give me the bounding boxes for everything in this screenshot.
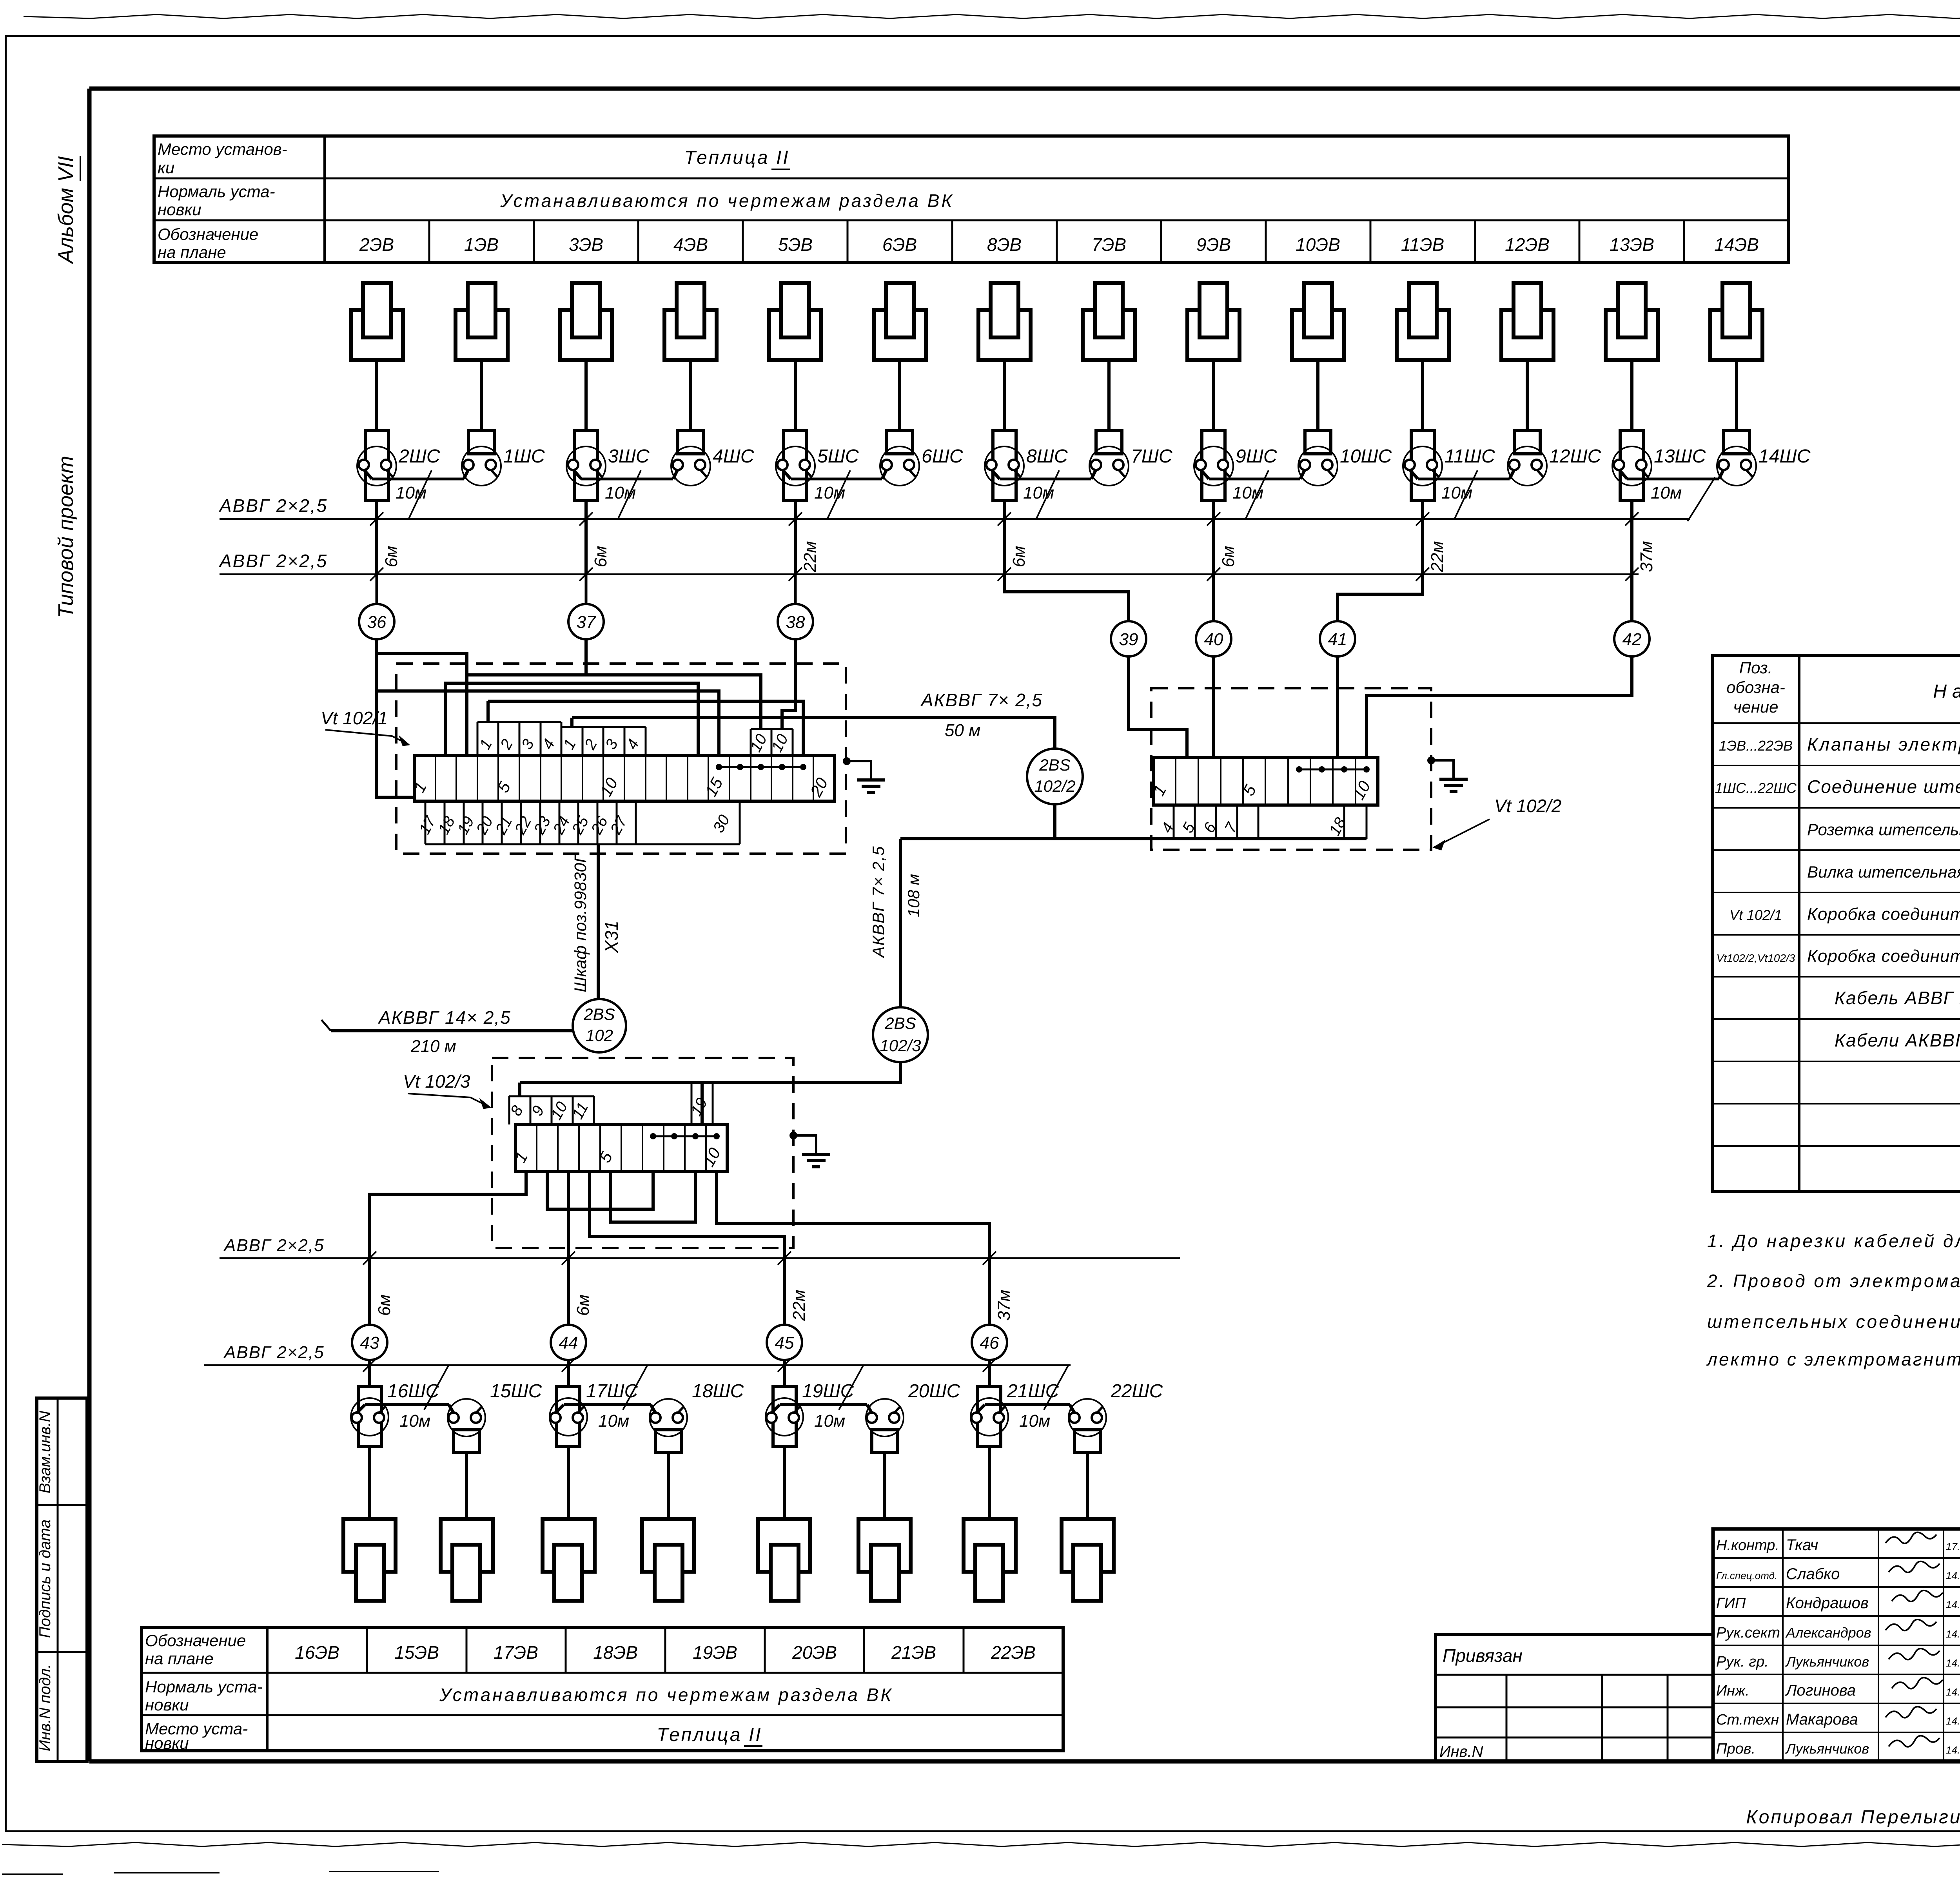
svg-text:10м: 10м — [1232, 483, 1263, 502]
plug connector 9ШС (socket with cable entry) — [1194, 446, 1233, 486]
svg-text:Нормаль уста-: Нормаль уста- — [158, 182, 275, 201]
wire drop to node 41 — [1338, 574, 1423, 621]
bottom table (Обозначение на плане / Нормаль установки / Место установки) — [142, 1627, 1063, 1751]
electromagnetic valve 2ЭВ — [351, 310, 403, 360]
svg-text:102/3: 102/3 — [880, 1036, 921, 1055]
node 38 — [794, 574, 797, 604]
branch drop wire (6м) from connector 2ШС to junction box — [375, 501, 378, 574]
svg-text:ГИП: ГИП — [1716, 1595, 1746, 1612]
svg-text:16ЭВ: 16ЭВ — [295, 1642, 339, 1663]
node 37 — [585, 574, 588, 604]
node 43 — [352, 1325, 387, 1360]
leader slash — [1688, 477, 1715, 521]
svg-text:43: 43 — [360, 1333, 379, 1353]
svg-text:22м: 22м — [789, 1289, 809, 1321]
wire 15ШС down to valve 15ЭВ — [465, 1453, 468, 1519]
svg-text:39: 39 — [1119, 630, 1138, 649]
wire from valve 12ЭВ down to connector — [1526, 360, 1529, 430]
svg-text:6м: 6м — [1219, 546, 1238, 568]
svg-text:новки: новки — [158, 200, 201, 219]
wire from valve 11ЭВ down to connector — [1421, 360, 1424, 430]
wire Vt102/3 terminal 3 to node 44 — [567, 1172, 570, 1325]
svg-text:Обозначение: Обозначение — [145, 1631, 246, 1650]
wire from valve 6ЭВ down to connector — [898, 360, 901, 430]
wire from valve 10ЭВ down to connector — [1316, 360, 1319, 430]
node 42 — [1614, 621, 1650, 657]
svg-text:1ЭВ: 1ЭВ — [464, 234, 499, 255]
svg-text:19ШС: 19ШС — [802, 1381, 854, 1402]
branch drop wire (6м) from connector 8ШС to junction box — [1003, 501, 1006, 574]
cable 10 m between 11ШС and 12ШС — [1418, 478, 1510, 481]
svg-text:Наименование: Наименование — [1933, 681, 1960, 702]
electromagnetic valve 14ЭВ — [1710, 310, 1762, 360]
plug connector 14ШС — [1717, 446, 1756, 486]
node 36 — [376, 574, 378, 604]
core stubs 1,2,3,4 (group B) above terminals 8-11 — [561, 727, 563, 755]
wire from valve 3ЭВ down to connector — [584, 360, 588, 430]
cable designation circle 2BS 102 — [573, 999, 626, 1052]
svg-text:АВВГ 2×2,5: АВВГ 2×2,5 — [223, 1343, 325, 1362]
svg-text:Ткач: Ткач — [1786, 1536, 1818, 1554]
main drawing frame — [89, 87, 1960, 91]
svg-text:АВВГ 2×2,5: АВВГ 2×2,5 — [218, 495, 328, 516]
cable 10 m between 8ШС and 7ШС — [1000, 478, 1091, 481]
svg-text:Кабели АКВВГ ГОСТ 1508-78: Кабели АКВВГ ГОСТ 1508-78 — [1835, 1030, 1960, 1050]
branch drop wire (6м) from connector 9ШС to junction box — [1212, 501, 1215, 574]
svg-text:АВВГ 2×2,5: АВВГ 2×2,5 — [218, 551, 328, 571]
svg-text:на плане: на плане — [158, 243, 226, 261]
svg-text:11ЭВ: 11ЭВ — [1401, 234, 1444, 255]
wire nest: node37 tee line to stub 10 over terminal 17 — [467, 675, 761, 729]
junction box Vt 102/1 (dashed outline) — [396, 664, 846, 854]
svg-text:Н.контр.: Н.контр. — [1716, 1537, 1779, 1554]
core stubs 8,9,10,11 above terminals of Vt102/3 — [508, 1096, 510, 1124]
svg-text:102/2: 102/2 — [1034, 777, 1075, 795]
svg-text:чение: чение — [1733, 698, 1779, 716]
core stub 19 above terminal 9 of Vt102/3 — [691, 1083, 693, 1124]
svg-text:Гл.спец.отд.: Гл.спец.отд. — [1716, 1570, 1777, 1581]
svg-text:13ШС: 13ШС — [1654, 446, 1706, 467]
svg-text:Альбом VII: Альбом VII — [54, 156, 78, 264]
electromagnetic valve 21ЭВ — [964, 1519, 1016, 1572]
svg-text:Vt 102/1: Vt 102/1 — [321, 708, 388, 728]
svg-text:10м: 10м — [399, 1411, 430, 1431]
svg-text:12ШС: 12ШС — [1549, 446, 1601, 467]
sheet scan edge (top wavy line) — [24, 15, 1960, 18]
ground symbol of Vt 102/1 — [843, 757, 851, 765]
wire 17ШС down to valve 17ЭВ — [567, 1447, 570, 1519]
ground symbol of Vt 102/2 — [1427, 756, 1435, 764]
svg-text:6м: 6м — [1009, 546, 1029, 568]
svg-text:5ШС: 5ШС — [817, 446, 859, 467]
svg-text:15ШС: 15ШС — [490, 1381, 542, 1402]
svg-text:22ЭВ: 22ЭВ — [991, 1642, 1036, 1663]
cable 10 m between 19ШС and 20ШС — [780, 1403, 867, 1406]
electromagnetic valve 4ЭВ — [664, 310, 717, 360]
cable designation circle 2BS 102/3 — [873, 1007, 928, 1062]
jumper link terminals 7-10 of Vt102/3 — [653, 1135, 717, 1137]
leader slash — [424, 1366, 448, 1410]
svg-text:новки: новки — [145, 1696, 189, 1714]
wire from valve 1ЭВ down to connector — [480, 360, 483, 430]
svg-text:Инв.N: Инв.N — [1439, 1743, 1483, 1760]
svg-text:8ШС: 8ШС — [1026, 446, 1068, 467]
svg-text:2BS: 2BS — [884, 1014, 916, 1032]
svg-text:10м: 10м — [1441, 483, 1472, 502]
svg-text:Vt 102/3: Vt 102/3 — [403, 1071, 470, 1092]
svg-text:3ЭВ: 3ЭВ — [569, 234, 603, 255]
svg-text:14.01.86: 14.01.86 — [1946, 1628, 1960, 1640]
svg-text:Клапаны электромагнитные: Клапаны электромагнитные — [1807, 734, 1960, 754]
svg-text:обозна-: обозна- — [1726, 678, 1785, 696]
cable 10 m between 5ШС and 6ШС — [791, 478, 882, 481]
wire 16ШС down to valve 16ЭВ — [368, 1447, 371, 1519]
svg-text:11ШС: 11ШС — [1445, 446, 1495, 467]
svg-text:21ШС: 21ШС — [1007, 1381, 1059, 1402]
wire from valve 14ЭВ down to connector — [1735, 360, 1738, 430]
electromagnetic valve 20ЭВ — [858, 1519, 911, 1572]
svg-text:на плане: на плане — [145, 1649, 214, 1668]
core stubs 1,2,3,4 (group A) above terminals 4-7 — [477, 722, 479, 755]
wire node36 into Vt102/1 terminal 1 side entry — [377, 639, 414, 797]
svg-text:1. До нарезки кабелей длины тр: 1. До нарезки кабелей длины трасс уточни… — [1707, 1231, 1960, 1251]
jumper link terminals 15-19 — [719, 766, 803, 768]
cable АКВВГ 14×2,5 210м — [331, 1029, 573, 1032]
wire Vt102/3 terminal 4 to node 45 — [590, 1172, 784, 1325]
wire 18ШС down to valve 18ЭВ — [667, 1453, 670, 1519]
svg-text:1ЭВ...22ЭВ: 1ЭВ...22ЭВ — [1719, 738, 1793, 754]
plug connector 19ШС — [766, 1398, 803, 1436]
cable 10 m between 3ШС and 4ШС — [581, 478, 673, 481]
wire from valve 7ЭВ down to connector — [1107, 360, 1111, 430]
svg-text:50 м: 50 м — [945, 721, 980, 740]
svg-text:8ЭВ: 8ЭВ — [987, 234, 1022, 255]
wire from 2BS 102/2 to terminal stubs of Vt 102/2 — [1055, 804, 1367, 839]
node 41 — [1320, 621, 1355, 657]
electromagnetic valve 6ЭВ — [874, 310, 926, 360]
leader slash — [1044, 1366, 1068, 1410]
cable bus АВВГ 2×2,5 (upper) — [220, 518, 1690, 520]
svg-text:Коробка соединительная КС-10 Т: Коробка соединительная КС-10 ТУ 36.1764-… — [1807, 947, 1960, 966]
ground symbol of Vt 102/3 — [789, 1132, 797, 1139]
svg-text:АКВВГ 7× 2,5: АКВВГ 7× 2,5 — [920, 690, 1043, 710]
svg-text:Соединение штепсельное ГОСТ 73: Соединение штепсельное ГОСТ 7396-76 — [1807, 776, 1960, 797]
branch drop wire (22м) from connector 11ШС to junction box — [1421, 501, 1424, 574]
cable bus АВВГ 2×2,5 (lower) — [220, 573, 1639, 575]
terminal strip of Vt 102/1 (20 terminals) — [414, 755, 835, 801]
electromagnetic valve 17ЭВ — [543, 1519, 595, 1572]
svg-text:Место установ-: Место установ- — [158, 140, 287, 158]
svg-text:Слабко: Слабко — [1786, 1565, 1840, 1583]
svg-text:7ШС: 7ШС — [1131, 446, 1172, 467]
cable bus АВВГ 2×2,5 (lower section, upper line) — [220, 1257, 1180, 1259]
attachment table Привязан — [1436, 1634, 1713, 1761]
plug connector 10ШС — [1298, 446, 1338, 486]
specification table frame — [1712, 655, 1960, 1192]
branch drop wire (22м) from connector 5ШС to junction box — [794, 501, 797, 574]
terminal strip of Vt 102/3 (10 terminals) — [515, 1124, 727, 1172]
svg-text:46: 46 — [980, 1333, 999, 1353]
svg-text:5ЭВ: 5ЭВ — [778, 234, 813, 255]
electromagnetic valve 11ЭВ — [1397, 310, 1449, 360]
cable 10 m between 13ШС and 14ШС — [1627, 478, 1719, 481]
wire from valve 2ЭВ down to connector — [375, 360, 378, 430]
svg-text:Макарова: Макарова — [1786, 1711, 1858, 1728]
svg-text:лектно с электромагнитными: лектно с электромагнитными вентилями фир… — [1706, 1349, 1960, 1369]
svg-text:2. Провод от электромагнитных: 2. Провод от электромагнитных вентилей (… — [1707, 1271, 1960, 1291]
wire link terminals 2-7 below strip — [547, 1172, 653, 1209]
lower terminal cells 17-27 of Vt102/1 — [425, 801, 426, 844]
svg-text:16ШС: 16ШС — [387, 1381, 439, 1402]
wire node 43 to connector — [368, 1365, 371, 1386]
svg-text:22м: 22м — [1428, 541, 1447, 572]
svg-text:Кондрашов: Кондрашов — [1786, 1594, 1869, 1612]
svg-text:14ЭВ: 14ЭВ — [1714, 234, 1759, 255]
core stubs 4,5,6,7 below terminals of Vt102/2 — [1173, 805, 1175, 839]
electromagnetic valve 22ЭВ — [1062, 1519, 1114, 1572]
svg-text:Кабель АВВГ 2×2,5-0,66 ГОСТ: Кабель АВВГ 2×2,5-0,66 ГОСТ 16442-80 — [1835, 988, 1960, 1008]
wire node 45 to connector — [783, 1365, 786, 1386]
svg-text:Логинова: Логинова — [1785, 1682, 1856, 1699]
plug connector 5ШС (socket with cable entry) — [776, 446, 815, 486]
wire drop to node 39 — [1004, 574, 1129, 621]
svg-text:10м: 10м — [598, 1411, 629, 1431]
plug connector 13ШС (socket with cable entry) — [1612, 446, 1651, 486]
svg-text:108 м: 108 м — [904, 874, 923, 918]
wire 21ШС down to valve 21ЭВ — [988, 1447, 991, 1519]
svg-text:2ЭВ: 2ЭВ — [359, 234, 394, 255]
electromagnetic valve 19ЭВ — [758, 1519, 810, 1572]
wire drop to node 42 — [1630, 574, 1633, 621]
wire 22ШС down to valve 22ЭВ — [1086, 1453, 1089, 1519]
svg-text:14.01.86: 14.01.86 — [1946, 1686, 1960, 1698]
svg-text:10м: 10м — [396, 483, 426, 502]
wire drop to node 40 — [1212, 574, 1215, 621]
plug connector 2ШС (socket with cable entry) — [357, 446, 396, 486]
title block frame — [1713, 1529, 1960, 1761]
svg-text:44: 44 — [559, 1333, 578, 1353]
plug connector 16ШС — [351, 1398, 388, 1436]
svg-text:Взам.инв.N: Взам.инв.N — [36, 1411, 54, 1494]
svg-text:20ЭВ: 20ЭВ — [792, 1642, 837, 1663]
svg-text:37м: 37м — [1637, 541, 1656, 572]
svg-text:6ЭВ: 6ЭВ — [882, 234, 917, 255]
svg-text:Шкаф поз.99830Г: Шкаф поз.99830Г — [571, 852, 590, 992]
wire node 42 into Vt102/2 terminal 10 — [1367, 657, 1632, 758]
leader slash — [408, 470, 432, 519]
svg-text:14.01.86: 14.01.86 — [1946, 1657, 1960, 1669]
svg-text:Типовой проект: Типовой проект — [54, 456, 78, 618]
svg-text:Вилка штепсельная с уплотненны: Вилка штепсельная с уплотненным вводом У… — [1807, 863, 1960, 881]
svg-text:14.01.86: 14.01.86 — [1946, 1715, 1960, 1727]
svg-text:10м: 10м — [605, 483, 636, 502]
svg-text:20ШС: 20ШС — [908, 1381, 960, 1402]
plug connector 21ШС — [971, 1398, 1008, 1436]
svg-text:38: 38 — [786, 613, 805, 632]
svg-text:АВВГ 2×2,5: АВВГ 2×2,5 — [223, 1236, 325, 1255]
svg-text:Vt 102/1: Vt 102/1 — [1730, 907, 1782, 923]
svg-text:22ШС: 22ШС — [1111, 1381, 1163, 1402]
svg-text:36: 36 — [367, 613, 387, 632]
svg-text:Устанавливаются по чертежам р: Устанавливаются по чертежам раздела ВК — [439, 1685, 893, 1705]
svg-text:Инж.: Инж. — [1716, 1683, 1749, 1699]
leader slash — [1245, 470, 1269, 519]
svg-text:10м: 10м — [1023, 483, 1054, 502]
svg-text:2BS: 2BS — [583, 1005, 615, 1023]
svg-text:6м: 6м — [382, 546, 401, 568]
svg-text:102: 102 — [586, 1026, 613, 1045]
wire from valve 5ЭВ down to connector — [794, 360, 797, 430]
node 46 — [972, 1325, 1007, 1360]
svg-text:17ЭВ: 17ЭВ — [494, 1642, 538, 1663]
plug connector 7ШС — [1089, 446, 1129, 486]
svg-text:3ШС: 3ШС — [608, 446, 650, 467]
svg-text:10м: 10м — [814, 483, 845, 502]
electromagnetic valve 5ЭВ — [769, 310, 821, 360]
svg-text:2BS: 2BS — [1039, 756, 1070, 774]
leader slash — [1454, 470, 1477, 519]
wire 20ШС down to valve 20ЭВ — [883, 1453, 886, 1519]
leader slash — [618, 470, 641, 519]
jumper link terminals 7-10 of Vt102/2 — [1299, 769, 1367, 771]
svg-text:13ЭВ: 13ЭВ — [1610, 234, 1654, 255]
electromagnetic valve 10ЭВ — [1292, 310, 1344, 360]
junction box Vt 102/2 (dashed outline) — [1151, 688, 1431, 850]
svg-text:Нормаль уста-: Нормаль уста- — [145, 1678, 263, 1696]
svg-text:Привязан: Привязан — [1443, 1645, 1523, 1666]
leader slash — [1036, 470, 1059, 519]
electromagnetic valve 12ЭВ — [1501, 310, 1553, 360]
core stub 18 below terminal 9-10 of Vt102/2 — [1343, 805, 1345, 839]
svg-text:Обозначение: Обозначение — [158, 225, 258, 243]
plug connector 15ШС — [448, 1399, 485, 1436]
svg-text:210 м: 210 м — [410, 1037, 456, 1056]
svg-text:2ШС: 2ШС — [398, 446, 440, 467]
svg-text:9ШС: 9ШС — [1236, 446, 1277, 467]
svg-text:Поз.: Поз. — [1739, 658, 1773, 677]
svg-text:14.01.86: 14.01.86 — [1946, 1570, 1960, 1581]
svg-text:Пров.: Пров. — [1716, 1741, 1755, 1757]
node 44 — [551, 1325, 586, 1360]
svg-text:17.01.86: 17.01.86 — [1946, 1541, 1960, 1552]
wire from valve 13ЭВ down to connector — [1630, 360, 1633, 430]
wire 19ШС down to valve 19ЭВ — [783, 1447, 786, 1519]
svg-text:10ЭВ: 10ЭВ — [1296, 234, 1340, 255]
plug connector 8ШС (socket with cable entry) — [985, 446, 1024, 486]
svg-text:10м: 10м — [814, 1411, 845, 1431]
wire nest: feed of core-stubs 1-4 (group B) continuing as cable АКВВГ 7×2,5 50м — [572, 718, 1055, 749]
electromagnetic valve 8ЭВ — [978, 310, 1031, 360]
leader slash — [827, 470, 850, 519]
svg-text:7ЭВ: 7ЭВ — [1092, 234, 1126, 255]
wire Vt102/3 terminal 1 to node 43 — [370, 1172, 526, 1325]
svg-text:37: 37 — [577, 613, 596, 632]
wire nest: terminal2-terminal14 link — [446, 683, 698, 755]
svg-text:40: 40 — [1204, 630, 1223, 649]
sheet scan edge (bottom wavy line) — [2, 1843, 1960, 1846]
cable 10 m between 21ШС and 22ШС — [985, 1403, 1070, 1406]
wire nest: feed of core-stubs 1-4 (group A) — [488, 701, 803, 755]
wire link from Vt102/2 core line to 108m cable — [900, 837, 1055, 840]
plug connector 22ШС — [1069, 1399, 1106, 1436]
core stubs 10,10 above terminals 17-18 — [750, 729, 752, 755]
svg-text:4ЭВ: 4ЭВ — [673, 234, 708, 255]
top table (Место установки / Нормаль установки / Обозначение на плане) — [154, 136, 1789, 263]
svg-text:21ЭВ: 21ЭВ — [891, 1642, 936, 1663]
svg-text:41: 41 — [1328, 630, 1347, 649]
svg-text:10м: 10м — [1651, 483, 1682, 502]
node 39 — [1111, 621, 1146, 657]
wire Vt102/3 terminal 10 to node 46 — [717, 1172, 989, 1325]
cable designation circle 2BS 102/2 — [1027, 749, 1083, 804]
wire from 2BS 102/3 into Vt 102/3 — [520, 1062, 900, 1083]
svg-text:АКВВГ 7× 2,5: АКВВГ 7× 2,5 — [869, 845, 887, 958]
electromagnetic valve 16ЭВ — [343, 1519, 396, 1572]
electromagnetic valve 18ЭВ — [642, 1519, 694, 1572]
electromagnetic valve 9ЭВ — [1187, 310, 1240, 360]
svg-text:штепсельных соединений (1ШС..: штепсельных соединений (1ШС... 22ШС) пос… — [1707, 1311, 1960, 1332]
cable 10 m between 16ШС and 15ШС — [365, 1403, 449, 1406]
svg-text:4ШС: 4ШС — [713, 446, 754, 467]
cable 10 m between 17ШС and 18ШС — [564, 1403, 651, 1406]
svg-text:6ШС: 6ШС — [922, 446, 963, 467]
electromagnetic valve 1ЭВ — [456, 310, 508, 360]
svg-text:Рук. гр.: Рук. гр. — [1716, 1654, 1769, 1670]
leader slash — [623, 1366, 647, 1410]
wire from valve 9ЭВ down to connector — [1212, 360, 1215, 430]
svg-text:Розетка штепсельная брызгонепр: Розетка штепсельная брызгонепроницаемая … — [1807, 820, 1960, 839]
plug connector 6ШС — [880, 446, 919, 486]
svg-text:6м: 6м — [591, 546, 610, 568]
svg-text:9ЭВ: 9ЭВ — [1196, 234, 1231, 255]
cable bus АВВГ 2×2,5 (lower section, lower line) — [204, 1364, 1071, 1366]
junction box Vt 102/3 (dashed outline) — [492, 1058, 793, 1248]
node 38 wire into stub 10 over terminal 18 — [782, 639, 795, 729]
wire from valve 4ЭВ down to connector — [689, 360, 692, 430]
electromagnetic valve 15ЭВ — [441, 1519, 493, 1572]
svg-text:Александров: Александров — [1785, 1625, 1871, 1641]
electromagnetic valve 7ЭВ — [1083, 310, 1135, 360]
svg-text:Ст.техн: Ст.техн — [1716, 1712, 1779, 1728]
svg-text:18ШС: 18ШС — [692, 1381, 744, 1402]
svg-text:Копировал Перелыгина: Копировал Перелыгина — [1746, 1807, 1960, 1828]
plug connector 18ШС — [650, 1399, 687, 1436]
wire link terminals 5-9 below strip — [611, 1172, 695, 1222]
svg-text:1ШС: 1ШС — [503, 446, 545, 467]
wire node 39 into Vt102/2 terminal 2 — [1129, 657, 1187, 758]
svg-text:10м: 10м — [1019, 1411, 1050, 1431]
wire nest: horizontal to terminal 3 — [377, 653, 467, 755]
svg-text:10ШС: 10ШС — [1340, 446, 1392, 467]
svg-text:X31: X31 — [601, 921, 622, 953]
branch drop wire (6м) from connector 3ШС to junction box — [584, 501, 588, 574]
svg-text:6м: 6м — [375, 1295, 394, 1316]
plug connector 4ШС — [671, 446, 710, 486]
svg-text:22м: 22м — [800, 541, 820, 572]
svg-text:17ШС: 17ШС — [586, 1381, 638, 1402]
svg-text:14ШС: 14ШС — [1759, 446, 1811, 467]
wire node 46 to connector — [988, 1365, 991, 1386]
svg-text:45: 45 — [775, 1333, 794, 1353]
svg-text:15ЭВ: 15ЭВ — [394, 1642, 439, 1663]
plug connector 11ШС (socket with cable entry) — [1403, 446, 1442, 486]
svg-text:6м: 6м — [573, 1295, 593, 1316]
plug connector 3ШС (socket with cable entry) — [566, 446, 606, 486]
svg-text:14.01.86: 14.01.86 — [1946, 1599, 1960, 1610]
wire node 40 into Vt102/2 terminal 3 — [1212, 657, 1215, 758]
plug connector 1ШС — [462, 446, 501, 486]
cable 10 m between 2ШС and 1ШС — [372, 478, 464, 481]
